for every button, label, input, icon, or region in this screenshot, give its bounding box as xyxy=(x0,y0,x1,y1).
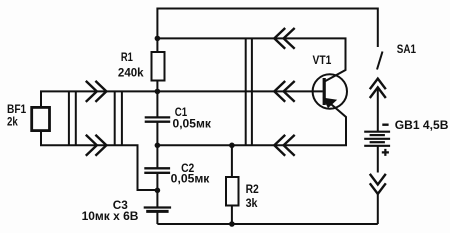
svg-text:240k: 240k xyxy=(118,65,144,79)
label GB1 plus sign xyxy=(382,149,389,156)
resistor R2 xyxy=(226,177,239,206)
svg-text:GB1 4,5В: GB1 4,5В xyxy=(395,118,449,132)
resistor R1 xyxy=(152,52,165,81)
svg-text:VT1: VT1 xyxy=(313,53,332,67)
capacitor C1 xyxy=(145,117,171,121)
wire collector rail y=38.4 xyxy=(157,38,345,81)
connector lines pair C xyxy=(246,38,252,145)
svg-text:R2: R2 xyxy=(246,182,259,196)
svg-text:10мк x 6В: 10мк x 6В xyxy=(82,209,139,223)
wire R1 vertical xyxy=(156,38,158,117)
svg-text:SA1: SA1 xyxy=(397,42,416,56)
svg-text:2k: 2k xyxy=(7,114,18,128)
headphone BF1 xyxy=(32,107,50,130)
connector lines pair A xyxy=(69,91,76,145)
wire battery branch upper xyxy=(377,87,379,173)
connector lines pair B xyxy=(115,91,122,145)
wire base line y=91.4 xyxy=(41,91,323,107)
wire C1-C2-C3 chain xyxy=(156,122,158,224)
svg-text:3k: 3k xyxy=(246,196,258,210)
svg-text:R1: R1 xyxy=(121,50,133,64)
label GB1 minus sign xyxy=(382,123,388,125)
svg-text:0,05мк: 0,05мк xyxy=(171,172,211,186)
connector chevrons >> on base line xyxy=(86,81,107,102)
capacitor C2 xyxy=(144,168,170,173)
connector chevrons >> on emitter line xyxy=(86,135,107,156)
svg-text:0,05мк: 0,05мк xyxy=(173,116,212,130)
wire top rail xyxy=(157,9,377,48)
junction dots xyxy=(155,36,235,227)
switch SA1 blade xyxy=(377,52,383,70)
transistor VT1 xyxy=(313,74,347,108)
battery GB1 xyxy=(364,132,390,146)
connector chevrons << on collector line xyxy=(274,28,294,49)
wire bottom rail xyxy=(157,194,377,224)
transistor VT1 emitter arrow xyxy=(324,98,336,107)
connector chevrons down, battery bottom xyxy=(370,174,386,194)
connector chevrons up, battery top xyxy=(370,79,386,98)
wire emitter net y=145.3 xyxy=(41,131,157,191)
connector chevrons << on base line right xyxy=(274,81,294,102)
capacitor C3 (electrolytic) xyxy=(144,208,171,212)
wire emitter right segment xyxy=(157,99,346,146)
connector chevrons << on emitter line right xyxy=(274,135,294,156)
wire R2 branch xyxy=(231,145,233,224)
